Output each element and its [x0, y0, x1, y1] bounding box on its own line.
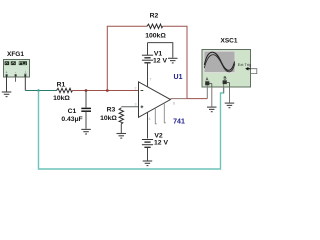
svg-text:U1: U1: [174, 74, 183, 81]
scope trace B: [204, 55, 235, 72]
op-amp offset null pin 1: [155, 108, 157, 124]
svg-text:V2: V2: [154, 133, 163, 140]
XFG1 plus pin wire: [6, 77, 8, 92]
svg-text:A: A: [205, 76, 208, 81]
resistor R2: [145, 13, 166, 40]
ground (scope B): [225, 103, 235, 108]
svg-text:741: 741: [173, 119, 185, 126]
svg-text:⊥: ⊥: [24, 69, 28, 74]
svg-text:C1: C1: [68, 108, 77, 115]
svg-text:10kΩ: 10kΩ: [100, 115, 117, 122]
XFG1 output pin: [24, 77, 26, 91]
battery V2: [142, 133, 169, 161]
svg-text:100kΩ: 100kΩ: [145, 33, 166, 40]
ground (scope A): [207, 107, 217, 112]
svg-text:Ext Trig: Ext Trig: [238, 62, 252, 67]
battery V1: [142, 43, 168, 65]
scope pin B+: [223, 84, 225, 93]
ground (R3): [117, 134, 127, 139]
node junction teal: [37, 89, 40, 92]
svg-text:B: B: [223, 75, 226, 80]
resistor R1: [53, 82, 72, 102]
svg-text:3: 3: [135, 103, 137, 107]
scope channel B terminal: [223, 75, 230, 87]
ground (C1): [81, 129, 91, 134]
scope pin A+: [206, 85, 208, 98]
capacitor C1: [61, 91, 91, 129]
XFG1 common pin stub: [15, 77, 17, 82]
svg-text:XSC1: XSC1: [221, 38, 238, 45]
svg-text:12 V: 12 V: [153, 58, 167, 65]
op-amp V- pin 4 wire: [147, 112, 149, 138]
svg-text:7: 7: [150, 78, 152, 82]
ground (V2): [143, 161, 153, 166]
svg-text:2: 2: [135, 87, 137, 91]
oscilloscope XSC1 body: [202, 50, 251, 88]
op-amp offset null pin 5: [164, 103, 166, 123]
ground (V1): [168, 58, 178, 63]
resistor R3: [100, 107, 138, 134]
wire V1 top to ground: [148, 43, 173, 58]
svg-text:R1: R1: [57, 82, 66, 89]
svg-text:R2: R2: [150, 13, 159, 20]
output wire to scope A: [171, 98, 188, 100]
feedback wire down to output: [163, 26, 187, 98]
svg-text:10kΩ: 10kΩ: [53, 95, 70, 102]
oscilloscope XSC1 label: [221, 38, 238, 45]
ext trig pin hook: [251, 69, 257, 74]
svg-text:R3: R3: [107, 107, 116, 114]
wire R1 to op-amp inverting input: [73, 90, 139, 92]
ground (XFG1): [2, 92, 12, 97]
scope trace A: [204, 52, 234, 70]
wire XFG1 to R1 (dark teal net): [25, 90, 56, 92]
svg-text:6: 6: [173, 102, 175, 106]
function generator XFG1 label: [7, 51, 24, 58]
node junction C1: [85, 89, 88, 92]
wire V1 to op-amp V+ pin 7: [147, 63, 149, 88]
op-amp U1: [135, 74, 185, 126]
scope pin B- to ground: [229, 87, 231, 103]
svg-text:12 V: 12 V: [154, 140, 168, 147]
svg-text:4: 4: [149, 117, 151, 121]
svg-text:XFG1: XFG1: [7, 51, 24, 58]
svg-text:0.43µF: 0.43µF: [61, 116, 82, 123]
function generator XFG1 body: [4, 60, 30, 78]
scope pin A- to ground: [211, 87, 213, 107]
feedback wire up to R2: [107, 26, 147, 90]
scope channel A terminal: [205, 76, 212, 87]
wire probe to scope B (light teal): [39, 87, 224, 169]
node junction feedback: [106, 89, 109, 92]
ext trig arrow: [245, 67, 250, 71]
svg-text:V1: V1: [154, 51, 163, 58]
